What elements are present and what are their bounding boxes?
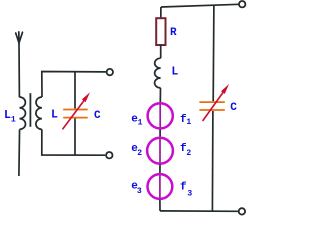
wire top to resistor <box>160 7 162 18</box>
wire e1 to e2 <box>159 130 161 137</box>
terminal top-right <box>239 1 245 7</box>
wire e3 to bottom rail <box>159 200 161 211</box>
svg-text:3: 3 <box>187 190 192 199</box>
antenna <box>16 32 23 43</box>
inductor L right circuit <box>155 58 161 88</box>
capacitor C left plates <box>63 110 87 118</box>
svg-text:1: 1 <box>11 116 16 125</box>
svg-text:L: L <box>171 66 178 79</box>
wire e2 to e3 <box>159 165 161 174</box>
source e3 <box>148 174 173 199</box>
svg-text:R: R <box>170 27 177 39</box>
svg-text:1: 1 <box>138 118 143 127</box>
wire resistor to inductor <box>160 45 162 58</box>
wire L1 bottom stub <box>18 129 21 176</box>
arrow variable capacitor right <box>203 84 229 121</box>
label L1 <box>4 109 16 125</box>
wire secondary top <box>42 72 106 98</box>
wire capacitor branch top <box>74 72 76 109</box>
svg-text:2: 2 <box>137 149 142 158</box>
svg-text:2: 2 <box>186 149 191 158</box>
wire capacitor branch right top <box>212 5 215 102</box>
terminal bottom-left circuit <box>106 152 112 158</box>
svg-text:C: C <box>230 102 237 114</box>
wire inductor to e1 <box>159 88 161 103</box>
svg-text:3: 3 <box>137 187 142 196</box>
wire secondary bottom <box>42 129 105 155</box>
wire capacitor branch bottom <box>74 119 76 156</box>
terminal top-left circuit <box>107 69 113 75</box>
source e1 <box>148 103 173 128</box>
inductor L secondary <box>36 97 42 129</box>
svg-text:C: C <box>94 110 101 122</box>
wire bottom rail right circuit <box>160 210 238 212</box>
label f2 <box>180 143 191 158</box>
label f3 <box>180 181 192 198</box>
terminal bottom-right <box>239 208 245 214</box>
resistor R <box>156 18 165 45</box>
transformer core <box>29 93 31 127</box>
wire antenna lead-in <box>18 43 20 97</box>
label f1 <box>180 114 191 127</box>
arrow variable capacitor left <box>63 92 91 129</box>
wire top rail right circuit <box>161 4 239 7</box>
label e3 <box>131 181 142 197</box>
source e2 <box>147 138 173 164</box>
label e2 <box>131 143 142 158</box>
wire capacitor branch right bottom <box>211 111 214 211</box>
inductor L1 <box>19 97 25 129</box>
label e1 <box>131 114 142 128</box>
svg-text:f: f <box>180 181 187 193</box>
capacitor C right plates <box>199 102 224 110</box>
svg-text:1: 1 <box>186 118 191 127</box>
svg-text:L: L <box>51 109 58 122</box>
